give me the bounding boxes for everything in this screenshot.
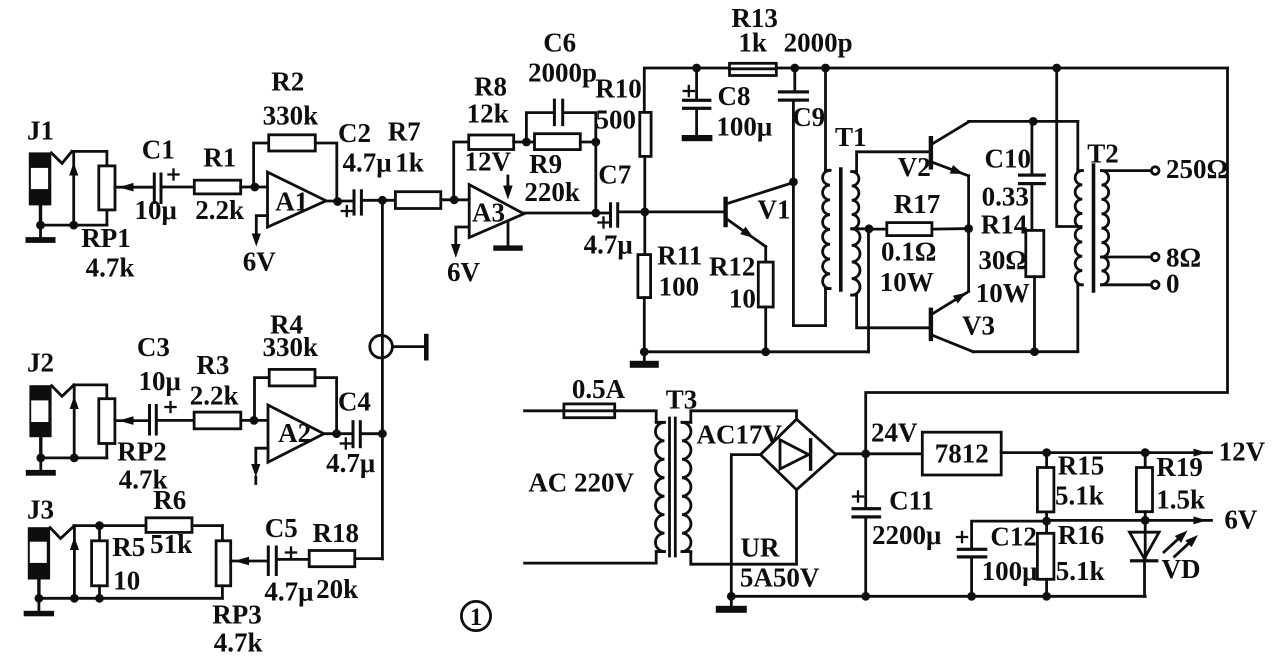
label C5	[265, 513, 298, 543]
wire J2 sleeve	[39, 437, 42, 458]
capacitor C8	[682, 68, 713, 141]
node 24V	[861, 449, 870, 458]
svg-text:4.7k: 4.7k	[214, 628, 263, 658]
wire R7 to A3	[441, 198, 469, 201]
label R9 value	[524, 177, 580, 207]
wire R8 to R9	[514, 141, 535, 144]
label 8	[1166, 243, 1201, 273]
terminal 8	[1151, 253, 1159, 261]
wire A1 output	[326, 200, 352, 203]
capacitor C9	[778, 68, 809, 182]
node A2 inverting input	[250, 416, 259, 425]
wire fuse to T3	[615, 411, 657, 423]
svg-text:500: 500	[595, 105, 636, 135]
label R16	[1058, 520, 1105, 550]
wire J2 tip to RP2 top	[74, 385, 107, 399]
svg-text:RP1: RP1	[81, 223, 131, 253]
svg-text:RP2: RP2	[117, 437, 167, 467]
node A1 inverting input	[250, 183, 259, 192]
wire C7 to V1 base	[620, 210, 726, 213]
label C11 value	[872, 520, 941, 550]
label C7 value	[584, 230, 633, 260]
svg-text:250Ω: 250Ω	[1166, 154, 1228, 184]
wire J2 bottom	[41, 456, 107, 459]
svg-text:UR: UR	[741, 533, 780, 563]
node out rail R14	[1030, 347, 1039, 356]
wire A2 noninv input	[251, 448, 268, 483]
jack J2	[29, 385, 74, 437]
label J2	[27, 348, 54, 378]
svg-text:10: 10	[113, 566, 140, 596]
node 12V R19	[1141, 448, 1150, 457]
label C4 value	[326, 448, 375, 478]
jack J1	[29, 151, 72, 205]
ground J2	[26, 458, 56, 476]
wire R8 left leg	[454, 142, 469, 200]
ground J1	[26, 225, 56, 243]
label R14 value	[978, 245, 1027, 275]
wire UR plus to 7812	[836, 452, 922, 455]
wire V2 collector line	[969, 120, 1078, 123]
wire C3 to R3	[158, 419, 194, 422]
svg-text:10W: 10W	[976, 278, 1030, 308]
label R7	[388, 117, 421, 147]
label J3	[27, 495, 54, 525]
op-amp A3	[469, 185, 524, 238]
node rail C9	[790, 64, 799, 73]
label C3 value	[139, 366, 181, 396]
svg-text:V1: V1	[758, 195, 791, 225]
wire J3 top line	[74, 524, 146, 527]
wire 24V riser	[866, 68, 1228, 454]
label R12	[709, 252, 756, 282]
node V1 collector	[789, 178, 798, 187]
wire J3 bottom	[39, 597, 223, 600]
label AC17V	[697, 420, 783, 450]
svg-text:10W: 10W	[880, 267, 934, 297]
node A1 output	[333, 197, 342, 206]
node C10 top	[1029, 117, 1038, 126]
wire C2 to R7	[363, 199, 395, 202]
label 12V	[1219, 437, 1266, 467]
transistor V2	[929, 122, 969, 176]
LED VD arrows	[1164, 531, 1198, 557]
svg-text:R16: R16	[1058, 520, 1105, 550]
wire tap 250	[1102, 169, 1151, 172]
svg-text:R2: R2	[271, 67, 304, 97]
capacitor C12	[956, 521, 1047, 596]
svg-text:C3: C3	[137, 332, 170, 362]
svg-text:R18: R18	[313, 518, 360, 548]
node 12V R15	[1042, 448, 1051, 457]
label R6 value	[150, 529, 192, 559]
wire C1 to R1	[163, 186, 195, 189]
label C2	[338, 118, 371, 148]
svg-text:R15: R15	[1058, 451, 1105, 481]
capacitor C2	[341, 189, 363, 217]
svg-text:4.7μ: 4.7μ	[264, 577, 313, 607]
wire R3 to A2	[241, 419, 268, 422]
label C10	[985, 144, 1032, 174]
op-amp A2	[268, 405, 324, 462]
svg-text:A3: A3	[472, 198, 505, 228]
label C2 value	[342, 148, 391, 178]
fuse 0.5A	[564, 404, 615, 418]
svg-text:C8: C8	[718, 81, 751, 111]
svg-text:V2: V2	[898, 152, 931, 182]
label V1	[758, 195, 791, 225]
label R13	[731, 3, 778, 33]
label R9	[529, 149, 562, 179]
svg-text:4.7μ: 4.7μ	[342, 148, 391, 178]
terminal 250	[1151, 167, 1159, 175]
label R3 value	[190, 381, 239, 411]
svg-text:J3: J3	[27, 495, 54, 525]
label T3	[666, 385, 698, 415]
label R8	[474, 72, 507, 102]
wire R2 right leg	[315, 143, 337, 202]
op-amp A1	[268, 172, 327, 227]
label R17 value	[881, 237, 936, 267]
ground J3	[24, 598, 54, 616]
resistor R2	[269, 135, 316, 151]
wire V1 emitter to R12	[764, 247, 767, 263]
node J1 sleeve	[36, 221, 78, 230]
svg-text:AC17V: AC17V	[697, 420, 783, 450]
label UR rating	[740, 563, 820, 593]
wire 6V line	[1047, 516, 1212, 524]
svg-text:2.2k: 2.2k	[190, 381, 239, 411]
wire 12V line	[1001, 449, 1211, 457]
svg-text:30Ω: 30Ω	[978, 245, 1027, 275]
wire UR left leg	[731, 455, 760, 597]
label C4	[338, 387, 371, 417]
label R17	[894, 189, 941, 219]
label C8 value	[716, 112, 772, 142]
resistor R12	[758, 262, 773, 352]
svg-text:AC 220V: AC 220V	[528, 468, 634, 498]
node rail C8	[692, 64, 701, 73]
wire A3 12V arrow	[503, 176, 513, 200]
wire T2 tap from rail	[1057, 68, 1081, 227]
wire psu ground rail	[731, 595, 1145, 598]
resistor R1	[194, 180, 240, 194]
capacitor C3	[148, 401, 177, 436]
label RP3	[212, 600, 262, 630]
resistor R8	[469, 135, 514, 150]
label R10	[595, 74, 642, 104]
svg-text:10: 10	[729, 284, 756, 314]
label R4	[270, 310, 303, 340]
resistor R7	[395, 192, 440, 209]
svg-text:6V: 6V	[243, 247, 277, 277]
label R1	[203, 143, 236, 173]
svg-text:0: 0	[1166, 269, 1180, 299]
svg-text:0.5A: 0.5A	[572, 374, 626, 404]
resistor R5	[92, 526, 108, 599]
wire mixing bus	[381, 200, 384, 559]
label A3 6V	[447, 257, 481, 287]
label 0	[1166, 269, 1180, 299]
node J3 top	[95, 521, 104, 530]
node A2 output	[332, 429, 341, 438]
svg-text:R6: R6	[153, 485, 186, 515]
svg-text:C12: C12	[990, 522, 1037, 552]
label C9	[792, 102, 825, 132]
node rail R12	[761, 347, 770, 356]
label 24V	[871, 418, 918, 448]
svg-text:5.1k: 5.1k	[1056, 556, 1105, 586]
connector circle	[370, 335, 393, 358]
resistor R6	[146, 518, 222, 533]
label R6	[153, 485, 186, 515]
label R13 value	[738, 28, 767, 58]
wire R4 left leg	[255, 378, 270, 421]
svg-text:R1: R1	[203, 143, 236, 173]
svg-text:R11: R11	[657, 241, 702, 271]
svg-text:RP3: RP3	[212, 600, 262, 630]
label R4 value	[263, 332, 319, 362]
node mix C4	[378, 429, 387, 438]
label C8	[718, 81, 751, 111]
svg-text:12V: 12V	[464, 147, 511, 177]
label R18 value	[316, 574, 358, 604]
transistor V1	[723, 183, 793, 247]
svg-text:5.1k: 5.1k	[1055, 481, 1104, 511]
node rail C12	[967, 592, 976, 601]
svg-text:C5: C5	[265, 513, 298, 543]
wire C6 right leg	[564, 113, 596, 213]
label R19 value	[1156, 485, 1205, 515]
transformer T1 secondary	[852, 152, 929, 328]
label R15	[1058, 451, 1105, 481]
svg-text:J1: J1	[27, 116, 54, 146]
wire A1 noninv input	[252, 216, 268, 247]
svg-text:T2: T2	[1087, 139, 1119, 169]
label R2 value	[263, 101, 319, 131]
label C5 value	[264, 577, 313, 607]
resistor R9	[535, 134, 581, 150]
label C12 value	[982, 556, 1038, 586]
node rail C11	[861, 592, 870, 601]
terminal bar	[424, 334, 429, 361]
svg-text:V3: V3	[962, 311, 995, 341]
resistor R3	[194, 412, 241, 429]
svg-text:A1: A1	[275, 187, 308, 217]
label R16 value	[1056, 556, 1105, 586]
capacitor C5	[267, 546, 297, 577]
jack J3	[28, 526, 74, 579]
resistor R18	[309, 551, 382, 567]
label C6 value	[528, 58, 597, 88]
wire J2 tip contact	[70, 385, 79, 458]
wire AC bottom	[525, 552, 657, 564]
label RP1	[81, 223, 131, 253]
node mix top	[378, 196, 387, 205]
bridge rectifier UR	[761, 419, 837, 490]
svg-text:1: 1	[470, 604, 483, 631]
label C1 value	[135, 195, 177, 225]
potentiometer RP2	[99, 399, 149, 458]
wire tap to ground rail	[867, 229, 870, 352]
svg-text:2000p: 2000p	[784, 28, 853, 58]
ground amp rail	[630, 352, 659, 368]
label R17 power	[880, 267, 934, 297]
svg-text:C7: C7	[598, 160, 631, 190]
wire J1 tip contact	[69, 151, 78, 225]
wire T3 sec top	[691, 411, 797, 423]
svg-text:R8: R8	[474, 72, 507, 102]
svg-text:R3: R3	[196, 350, 229, 380]
svg-text:J2: J2	[27, 348, 54, 378]
wire UR bottom leg	[731, 490, 796, 565]
node R9 right	[591, 138, 600, 147]
LED VD	[1130, 532, 1160, 596]
label V2	[898, 152, 931, 182]
capacitor C11	[852, 454, 882, 597]
svg-text:2200μ: 2200μ	[872, 520, 941, 550]
svg-text:C1: C1	[142, 135, 175, 165]
svg-text:C6: C6	[543, 28, 576, 58]
transformer T3 primary	[655, 422, 664, 551]
wire V2 emitter down	[967, 176, 970, 291]
svg-text:2000p: 2000p	[528, 58, 597, 88]
label RP1 value	[86, 252, 135, 282]
wire circle to bar	[392, 345, 424, 348]
svg-text:R9: R9	[529, 149, 562, 179]
label UR	[741, 533, 780, 563]
label R5	[112, 532, 145, 562]
label J1	[27, 116, 54, 146]
capacitor C6	[553, 99, 564, 127]
label T2	[1087, 139, 1119, 169]
node R8 R9	[522, 138, 531, 147]
resistor R16	[1037, 521, 1054, 596]
svg-text:A2: A2	[278, 418, 311, 448]
label V3	[962, 311, 995, 341]
node R17 right	[964, 224, 973, 233]
transformer T3 secondary	[682, 422, 691, 551]
node rail R11	[640, 347, 649, 356]
svg-text:10μ: 10μ	[135, 195, 177, 225]
node psu ground	[727, 592, 736, 601]
wire V1 collector to T1	[793, 182, 825, 326]
node J3 bottom	[35, 594, 104, 603]
node J2 sleeve	[36, 454, 78, 463]
node A3 output	[591, 209, 600, 218]
wire C4 to bus	[362, 432, 383, 435]
svg-text:T1: T1	[835, 122, 867, 152]
node rail T2	[1052, 64, 1061, 73]
ground psu	[716, 596, 747, 613]
svg-text:C2: C2	[338, 118, 371, 148]
wire R2 left leg	[254, 143, 269, 187]
wire R4 right leg	[315, 378, 337, 434]
svg-text:R7: R7	[388, 117, 421, 147]
label VD	[1162, 554, 1201, 584]
node R15 R16	[1042, 517, 1051, 526]
terminal 0	[1151, 281, 1159, 289]
wire A3 output	[524, 212, 610, 215]
svg-text:6V: 6V	[447, 257, 481, 287]
svg-text:R5: R5	[112, 532, 145, 562]
svg-text:0.1Ω: 0.1Ω	[881, 237, 936, 267]
node C7 R10 R11	[640, 208, 649, 217]
svg-text:1k: 1k	[738, 28, 767, 58]
label R14 power	[976, 278, 1030, 308]
label AC220V	[528, 468, 634, 498]
node A3 input	[450, 195, 459, 204]
node T1 tap	[865, 224, 874, 233]
wire tap 8	[1102, 256, 1151, 259]
svg-text:12k: 12k	[467, 99, 509, 129]
svg-text:20k: 20k	[316, 574, 358, 604]
label R3	[196, 350, 229, 380]
label A3 12V	[464, 147, 511, 177]
resistor R15	[1037, 453, 1054, 521]
svg-text:7812: 7812	[935, 439, 989, 469]
label R5 value	[113, 566, 140, 596]
resistor R14	[1026, 230, 1044, 351]
label R19	[1156, 452, 1203, 482]
label R15 value	[1055, 481, 1104, 511]
label C12	[990, 522, 1037, 552]
capacitor C4	[340, 420, 362, 450]
wire C6 left leg	[526, 113, 553, 142]
svg-text:R12: R12	[709, 252, 756, 282]
label fuse	[572, 374, 626, 404]
label R1 value	[195, 195, 244, 225]
svg-text:12V: 12V	[1219, 437, 1266, 467]
transformer T3 core	[670, 418, 676, 556]
capacitor C7	[597, 202, 619, 228]
label R11 value	[659, 272, 700, 302]
svg-text:R19: R19	[1156, 452, 1203, 482]
figure number	[461, 601, 490, 631]
svg-text:0.33: 0.33	[982, 182, 1029, 212]
label C3	[137, 332, 170, 362]
label 6V	[1224, 505, 1258, 535]
capacitor C10	[1018, 121, 1046, 230]
svg-text:R14: R14	[981, 210, 1028, 240]
potentiometer RP1	[99, 166, 154, 225]
label C7	[598, 160, 631, 190]
regulator 7812	[922, 432, 1001, 475]
svg-text:100μ: 100μ	[982, 556, 1038, 586]
wire amp out rail	[973, 350, 1078, 353]
svg-text:C9: C9	[792, 102, 825, 132]
wire J3 sleeve	[37, 580, 40, 599]
capacitor C1	[153, 168, 180, 204]
wire R1 to A1	[241, 186, 268, 189]
label C10 value	[982, 182, 1029, 212]
label R2	[271, 67, 304, 97]
svg-text:4.7μ: 4.7μ	[326, 448, 375, 478]
wire C5 to R18	[278, 558, 309, 561]
label C11	[889, 486, 934, 516]
svg-text:C10: C10	[985, 144, 1032, 174]
wire J1 sleeve	[39, 205, 42, 225]
label 250	[1166, 154, 1228, 184]
transformer T1 primary	[823, 68, 830, 326]
label A1 6V	[243, 247, 277, 277]
wire J1 tip to RP1 top	[72, 151, 107, 166]
resistor R19	[1136, 453, 1152, 560]
label R10 value	[595, 105, 636, 135]
svg-text:24V: 24V	[871, 418, 918, 448]
transformer T2 primary	[1075, 121, 1082, 351]
node rail T1	[821, 64, 830, 73]
